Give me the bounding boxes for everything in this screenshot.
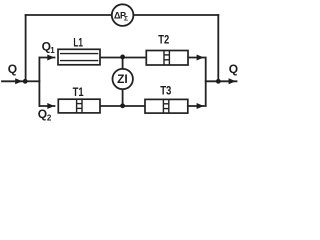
svg-text:1: 1 [50,46,55,55]
wire splitter vertical [38,58,40,107]
arrow output [229,78,236,84]
wire ZI lower stub [122,90,124,106]
svg-text:2: 2 [47,114,52,123]
svg-text:T2: T2 [158,32,169,46]
throttle T1 center band [77,99,82,113]
node output junction [216,79,221,84]
wire merge vertical [205,58,207,107]
node upper ZI junction [120,55,125,60]
wire top rail left segment [26,14,112,16]
wire input line [2,80,26,82]
svg-text:Q: Q [8,62,17,76]
wire lower-left branch lead [39,105,54,107]
throttle T3 center band [163,99,168,113]
wire left loop vertical [25,15,27,81]
arrow into T1 [47,103,54,109]
svg-text:T1: T1 [73,85,84,99]
gauge dP-Sigma circle [112,4,134,26]
node input junction [23,79,28,84]
wire L1 to node B lead [100,57,146,59]
throttle T3 body [145,99,188,113]
arrow input [15,78,22,84]
svg-text:Q: Q [38,107,47,121]
wire node-to-splitter connector [26,80,40,82]
svg-text:ZI: ZI [117,72,128,86]
node lower ZI junction [120,103,125,108]
wire top rail right segment [133,14,218,16]
svg-text:Σ: Σ [124,16,128,23]
throttle T2 body [146,51,188,66]
wire output line [206,80,237,82]
throttle T1 body [58,99,100,113]
wire T2 to merge lead [188,57,204,59]
throttle T2 center band [164,51,169,66]
resistor L1 body [58,49,100,65]
wire T1 to node C lead [100,105,145,107]
arrow into L1 [47,55,54,61]
arrow T3 into merge [197,103,204,109]
svg-text:Q: Q [229,62,238,76]
wire upper-left branch lead [39,57,54,59]
impedance ZI circle [113,69,133,89]
svg-text:L1: L1 [73,35,83,49]
wire T3 to merge lead [188,105,204,107]
svg-text:T3: T3 [160,84,171,98]
wire right loop vertical [217,15,219,81]
wire ZI upper stub [122,58,124,69]
arrow T2 into merge [197,55,204,61]
resistor L1 inner lines [60,54,98,61]
